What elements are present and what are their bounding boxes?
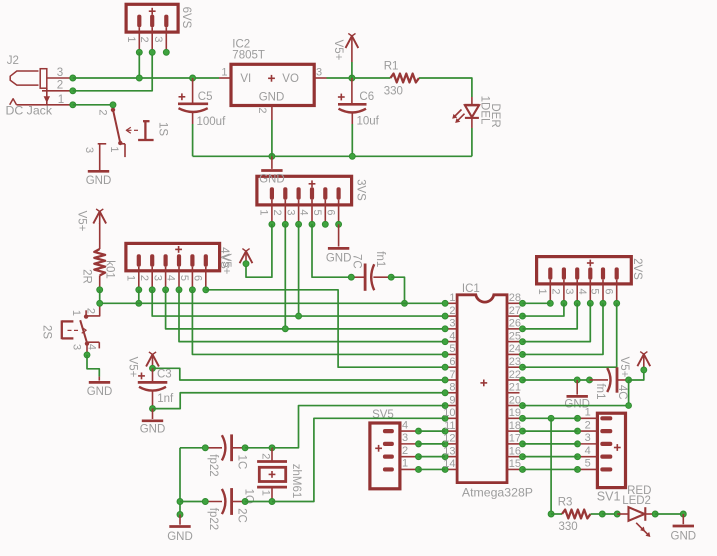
wire IC1 to SV1 y=431.1 (523, 430, 578, 432)
svg-text:SV5: SV5 (372, 409, 394, 421)
wire SV3.1 to +5V (246, 224, 272, 277)
node SV3 pin at x=298.6 (296, 221, 302, 227)
ground symbol (SV3.6) (326, 224, 352, 264)
connector SV1 (578, 413, 626, 487)
pin 4 label (S2) (86, 344, 98, 350)
svg-text:3: 3 (284, 209, 296, 215)
connector SV3 (257, 176, 352, 224)
svg-text:GND: GND (140, 424, 166, 436)
svg-text:R1: R1 (384, 61, 399, 73)
wire SV2.6 to IC1.23 (523, 303, 617, 367)
node S1.2 (110, 102, 116, 108)
svg-text:LED2: LED2 (622, 495, 651, 507)
pin 22 label (IC1) (509, 369, 521, 381)
node R3 left (548, 511, 554, 517)
label S1 (156, 122, 168, 136)
svg-text:DC Jack: DC Jack (6, 104, 53, 118)
label Atmega328P (462, 486, 533, 500)
node IC1 pin 24 (520, 351, 526, 357)
svg-text:3: 3 (316, 67, 322, 79)
svg-text:fn1: fn1 (374, 251, 386, 267)
svg-text:V5+: V5+ (75, 211, 87, 232)
label 330 (R1) (384, 86, 403, 98)
svg-text:3: 3 (83, 147, 95, 153)
label Q1 (242, 489, 254, 504)
label C3 (157, 369, 172, 381)
node IC1 pin 28 (520, 300, 526, 306)
pin 2 label (SV6) (138, 36, 150, 42)
svg-text:2: 2 (402, 445, 408, 457)
svg-text:GND: GND (259, 91, 285, 103)
node AVCC corner (626, 403, 632, 409)
wire SV4.4 to row4 (179, 290, 445, 342)
node SV5 pin y=469.44 (416, 466, 422, 472)
ground symbol (pin22) (564, 380, 590, 411)
supply +5V (R2) (93, 209, 106, 224)
wire C3 bottom to row8 (153, 393, 446, 409)
pin 28 label (IC1) (509, 292, 521, 304)
svg-text:2C: 2C (235, 508, 247, 523)
pin 15 label (IC1) (509, 458, 521, 470)
node SV5 pin y=443.88 (416, 441, 422, 447)
pin 4 label (SV5) (402, 419, 408, 431)
svg-text:fn1: fn1 (594, 384, 606, 400)
node SV1 pin y=469.44 (575, 466, 581, 472)
pin 9 label (IC1) (449, 394, 455, 406)
node SV4 pin at x=192.4 (189, 287, 195, 293)
node S2-reset junction (97, 300, 103, 306)
label SV2 (631, 258, 643, 280)
wire SV5 to IC1 y=443.88 (419, 443, 446, 445)
pin 4 label (IC1) (449, 330, 455, 342)
node C7 left (348, 274, 354, 280)
pin 1 label (SV6) (125, 36, 137, 42)
node IC1 pin 14 (442, 466, 448, 472)
pin 1 label (SV5) (402, 458, 408, 470)
svg-text:1nf: 1nf (157, 393, 174, 405)
wire C3 top to VCC row (153, 368, 446, 380)
node C7-reset junction (402, 300, 408, 306)
svg-text:27: 27 (509, 305, 521, 317)
svg-text:4: 4 (449, 330, 455, 342)
svg-text:3: 3 (563, 288, 575, 294)
wire SV4.3 to row3 (166, 290, 446, 329)
svg-text:4: 4 (576, 288, 588, 294)
svg-text:1: 1 (221, 67, 227, 79)
svg-text:GND: GND (87, 386, 113, 398)
node SV3 pin at x=325.3 (322, 221, 328, 227)
pin 2 label (Q1) (260, 453, 272, 459)
label J2 (7, 55, 19, 67)
label GND (IC2) (259, 91, 285, 103)
wire Q1 top row to XTAL1 (272, 406, 445, 448)
op-amp IC1 ATmega328P body (445, 295, 519, 483)
node Q1.1 (269, 499, 275, 505)
label C6 (359, 91, 374, 103)
node J2.2 junction (70, 88, 76, 94)
svg-text:1: 1 (449, 292, 455, 304)
wire SV5 to IC1 y=431.1 (419, 430, 446, 432)
pin 6 label (SV3) (324, 209, 336, 215)
wire C1 row (180, 447, 205, 449)
svg-text:k01: k01 (103, 260, 115, 279)
node IC1 pin 12 (442, 441, 448, 447)
pin 2 label (SV2) (550, 288, 562, 294)
svg-text:8: 8 (449, 382, 455, 394)
ground symbol (C3) (140, 409, 166, 436)
svg-text:IC1: IC1 (462, 283, 480, 295)
svg-text:14: 14 (443, 458, 455, 470)
wire SV3.3 down (298, 224, 300, 316)
resistor R3 (551, 510, 602, 519)
label C1 (235, 455, 247, 470)
node C6-gnd junction (349, 153, 355, 159)
pin 11 label (IC1) (444, 420, 455, 432)
svg-text:1: 1 (108, 146, 120, 152)
pin 10 label (IC1) (443, 407, 455, 419)
node SV1 pin y=456.65999999999997 (575, 454, 581, 460)
switch S2 (62, 303, 100, 355)
node IC1 pin 23 (520, 364, 526, 370)
svg-text:21: 21 (509, 382, 521, 394)
svg-text:2: 2 (256, 107, 268, 113)
svg-text:GND: GND (259, 174, 285, 186)
svg-text:2: 2 (138, 275, 150, 281)
node IC1 pin 18 (520, 428, 526, 434)
node SV2 pin at x=603.0 (600, 300, 606, 306)
pin 1 label (IC2) (221, 67, 227, 79)
node IC1 pin 26 (520, 326, 526, 332)
node +5V junction (349, 75, 355, 81)
pin 27 label (IC1) (509, 305, 521, 317)
label 100uf (197, 116, 227, 128)
svg-text:4: 4 (298, 209, 310, 215)
svg-text:22: 22 (509, 369, 521, 381)
label 22pf (C2) (207, 508, 219, 530)
pin 17 label (IC1) (509, 433, 521, 445)
node IC1 pin 4 (442, 339, 448, 345)
svg-text:V5+: V5+ (126, 357, 138, 378)
svg-text:13: 13 (443, 445, 455, 457)
label LED2 (622, 495, 651, 507)
wire J2.1 to S1 (73, 104, 113, 106)
supply +5V (C4) (637, 352, 650, 373)
svg-text:SV1: SV1 (597, 490, 621, 504)
label RED (LED1) (489, 103, 501, 127)
svg-text:2: 2 (85, 308, 97, 314)
pin 14 label (IC1) (443, 458, 455, 470)
svg-text:24: 24 (509, 343, 521, 355)
pin 13 label (IC1) (443, 445, 455, 457)
pin 3 label (SV4) (151, 275, 163, 281)
svg-text:7C: 7C (350, 254, 362, 269)
svg-text:9: 9 (449, 394, 455, 406)
pin 3 label (SV1) (585, 432, 591, 444)
pin 25 label (IC1) (509, 330, 521, 342)
label +5V (C6) (332, 40, 344, 61)
pin 20 label (IC1) (509, 394, 521, 406)
connector SV2 (537, 257, 632, 304)
label IC1 (462, 283, 480, 295)
capacitor C2 (205, 488, 245, 515)
pin 2 label (SV4) (138, 275, 150, 281)
svg-text:4VS: 4VS (218, 247, 230, 269)
wire SV6.1 down (138, 52, 140, 78)
svg-text:DER: DER (489, 103, 501, 127)
wire C4 to +5V (629, 370, 644, 380)
ground symbol (S2) (87, 377, 113, 398)
node SV4.1-reset junction (136, 300, 142, 306)
svg-text:C6: C6 (359, 91, 374, 103)
svg-text:GND: GND (86, 175, 112, 187)
pin 5 label (SV2) (589, 288, 601, 294)
LED LED2 (617, 507, 655, 537)
wire SV4.5 to row5 (192, 290, 445, 355)
pin 3 label (SV5) (402, 432, 408, 444)
pin 2 label (J2) (57, 79, 63, 92)
wire IC1 to SV1 y=469.44 (523, 468, 578, 470)
pin 2 label (SV5) (402, 445, 408, 457)
node C1 left (202, 445, 208, 451)
svg-text:3: 3 (71, 344, 83, 350)
connector SV4 (126, 243, 220, 289)
node SV1 pin y=443.88 (575, 441, 581, 447)
svg-text:15: 15 (509, 458, 521, 470)
node S2.3 (84, 352, 90, 358)
switch S1 (98, 105, 154, 170)
svg-text:3: 3 (151, 275, 163, 281)
label +5V (SV4) (220, 254, 232, 275)
svg-text:C3: C3 (157, 369, 172, 381)
label SV4 (218, 247, 230, 269)
wire IC1 to SV1 y=456.65999999999997 (523, 456, 578, 458)
pin 4 label (SV4) (165, 275, 177, 281)
node SV3.3-row2 junction (296, 313, 302, 319)
svg-text:2R: 2R (80, 269, 92, 284)
svg-text:IC2: IC2 (232, 38, 250, 50)
svg-text:26: 26 (509, 318, 521, 330)
pin 5 label (IC1) (449, 343, 455, 355)
pin 24 label (IC1) (509, 343, 521, 355)
node SV6.1 (136, 49, 142, 55)
node J2.3 junction (70, 75, 76, 81)
node IC1 pin 16 (520, 454, 526, 460)
node C2 right (242, 499, 248, 505)
wire R2 to reset row (99, 290, 101, 304)
svg-text:4: 4 (165, 275, 177, 281)
node IC1 pin 9 (442, 403, 448, 409)
svg-text:2: 2 (57, 79, 63, 92)
svg-text:7: 7 (449, 369, 455, 381)
svg-text:6: 6 (324, 209, 336, 215)
node SV3 pin at x=312.0 (309, 221, 315, 227)
pin 1 label (SV3) (258, 209, 270, 215)
node IC1 pin 11 (442, 428, 448, 434)
pin 16 label (IC1) (509, 445, 521, 457)
label SV3 (354, 179, 366, 201)
pin 1 label (S1) (108, 146, 120, 152)
pin 2 label (S2) (85, 308, 97, 314)
wire R3 to LED2 (602, 513, 617, 515)
svg-text:3: 3 (449, 318, 455, 330)
node pin19 branch (548, 415, 554, 421)
resistor R1 (390, 74, 419, 83)
node C2-gnd junction (177, 499, 183, 505)
svg-text:1: 1 (125, 275, 137, 281)
capacitor C1 (205, 434, 245, 461)
label C4 (616, 385, 628, 400)
node SV6.2 (149, 49, 155, 55)
node gnd tap (pin22 row) (574, 377, 580, 383)
svg-text:VI: VI (240, 73, 251, 85)
wire SV2.2 to IC1.27 (523, 303, 564, 316)
wire C2 to Q1.1 (245, 501, 272, 503)
svg-text:2: 2 (260, 453, 272, 459)
wire C5 to gnd rail (192, 124, 194, 156)
label DC Jack (6, 104, 53, 118)
node SV5 pin y=431.1 (416, 428, 422, 434)
pin 1 label (S2) (70, 310, 82, 316)
pin 4 label (SV3) (298, 209, 310, 215)
pin 3 label (S2) (71, 344, 83, 350)
svg-text:2: 2 (550, 288, 562, 294)
capacitor C6 (338, 78, 367, 124)
wire J2.3 to IC2.VI (73, 77, 219, 79)
node SV4 pin at x=179.0 (176, 287, 182, 293)
pin 4 label (SV1) (585, 445, 591, 457)
ground symbol (LED2) (671, 514, 697, 543)
node xtal gnd (177, 512, 183, 518)
wire J2.2 to SV6.2 (73, 52, 152, 91)
pin 2 label (SV3) (271, 209, 283, 215)
label S2 (40, 325, 52, 339)
node IC1 pin 17 (520, 441, 526, 447)
pin 5 label (SV4) (178, 275, 190, 281)
pin 3 label (SV3) (284, 209, 296, 215)
supply +5V (C6) (346, 33, 359, 78)
label +5V (C4) (618, 357, 630, 378)
svg-text:1: 1 (585, 407, 591, 419)
label 16Mhz (290, 464, 302, 499)
wire xtal gnd rail (179, 448, 181, 515)
svg-text:V5+: V5+ (618, 357, 630, 378)
label SV6 (180, 7, 192, 29)
svg-text:3: 3 (585, 432, 591, 444)
node SV5 pin y=456.65999999999997 (416, 454, 422, 460)
pin 19 label (IC1) (509, 407, 521, 419)
node IC1 pin 19 (520, 415, 526, 421)
node IC1 pin 2 (442, 313, 448, 319)
node IC1 pin 5 (442, 351, 448, 357)
pin 1 label (SV2) (536, 288, 548, 294)
svg-text:18: 18 (509, 420, 521, 432)
svg-text:5: 5 (178, 275, 190, 281)
label 330 (R3) (559, 521, 578, 533)
wire reset row (100, 302, 445, 304)
node SV4 pin at x=205.8 (203, 287, 209, 293)
node IC1 pin 20 (520, 403, 526, 409)
label 7805T (232, 50, 265, 62)
svg-text:1DEL: 1DEL (478, 96, 490, 125)
svg-text:3: 3 (402, 432, 408, 444)
pin 21 label (IC1) (509, 382, 521, 394)
wire IC1 to SV1 y=443.88 (523, 443, 578, 445)
label R2 (80, 269, 92, 284)
label +5V (R2) (75, 211, 87, 232)
pin 7 label (IC1) (449, 369, 455, 381)
node C4 left pin (587, 377, 593, 383)
node IC1 pin 15 (520, 466, 526, 472)
node SV1 pin y=431.1 (575, 428, 581, 434)
svg-text:VO: VO (282, 73, 299, 85)
node LED2 anode (614, 511, 620, 517)
node SV1 pin y=418.32 (575, 415, 581, 421)
node IC1 pin 8 (442, 390, 448, 396)
wire pin19 to R3 (550, 418, 552, 514)
wire SV2.3 to IC1.26 (523, 303, 578, 329)
svg-text:R3: R3 (558, 497, 573, 509)
wire C6 to gnd rail (351, 124, 353, 156)
label C2 (235, 508, 247, 523)
connector SV6 (126, 4, 178, 52)
wire ground rail (193, 155, 472, 157)
supply +5V (SV3.1) (240, 249, 253, 267)
node IC1 pin 13 (442, 454, 448, 460)
node SV2 pin at x=590.3 (587, 300, 593, 306)
wire SV3.4 to C7 (312, 224, 351, 277)
capacitor C4 (590, 367, 629, 392)
pin 5 label (SV3) (311, 209, 323, 215)
label LED1 (478, 96, 490, 125)
wire SV5 to IC1 y=456.65999999999997 (419, 456, 446, 458)
svg-text:C5: C5 (198, 91, 213, 103)
svg-text:20: 20 (509, 394, 521, 406)
node C1 right (242, 445, 248, 451)
svg-text:17: 17 (509, 433, 521, 445)
svg-text:10uf: 10uf (357, 116, 380, 128)
svg-text:2: 2 (585, 419, 591, 431)
svg-text:6VS: 6VS (180, 7, 192, 29)
node IC1 pin 10 (442, 415, 448, 421)
pin 12 label (IC1) (443, 433, 455, 445)
svg-text:fp22: fp22 (207, 454, 219, 476)
node SV3 pin at x=285.3 (282, 221, 288, 227)
node Q1.2 (269, 445, 275, 451)
pin 2 label (S1) (97, 109, 109, 115)
connector SV5 (370, 423, 419, 489)
capacitor C7 (351, 264, 391, 291)
label IC2 (232, 38, 250, 50)
node IC1 pin 22 (520, 377, 526, 383)
crystal Q1 16Mhz (257, 448, 287, 502)
node C4 right (626, 377, 632, 383)
wire R1 to LED1 (419, 78, 472, 97)
svg-text:330: 330 (384, 86, 403, 98)
label 10uf (357, 116, 380, 128)
svg-text:fp22: fp22 (207, 508, 219, 530)
svg-text:1: 1 (58, 93, 64, 106)
svg-text:3: 3 (57, 66, 63, 79)
wire SV2.4 to IC1.25 (523, 303, 591, 341)
pin 2 label (IC2) (256, 107, 268, 113)
wire S2 to ground (87, 355, 99, 377)
svg-text:2: 2 (97, 109, 109, 115)
node IC1 pin 1 (442, 300, 448, 306)
svg-text:100uf: 100uf (197, 116, 227, 128)
svg-text:5: 5 (589, 288, 601, 294)
svg-text:5: 5 (449, 343, 455, 355)
ground symbol (S1) (86, 171, 112, 187)
